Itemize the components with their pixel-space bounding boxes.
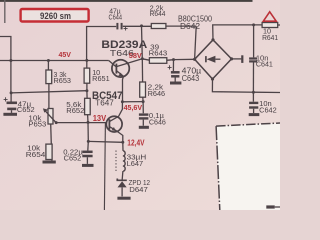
capacitor C652 (0,22u) [82,141,92,164]
svg-text:R646: R646 [148,89,166,98]
top page border [0,0,253,2]
node E junction [85,89,88,92]
wire wiper to BC547 base [56,122,107,124]
node I junction [87,140,90,143]
ground (R654) [43,161,56,164]
capacitor C646 [139,102,149,126]
left page frame line [4,0,6,23]
svg-text:R643: R643 [149,49,168,58]
wire C644 to node F [123,25,152,27]
svg-text:C652: C652 [64,154,81,163]
capacitor C643 [167,60,179,82]
ground (C652 47u) [3,113,17,116]
wire node M to bridge left [174,58,195,60]
node D junction (C652 top) [10,91,13,94]
svg-text:45V: 45V [59,50,72,59]
svg-text:R654: R654 [26,150,46,159]
svg-text:+: + [167,63,172,72]
bridge rectifier D642 [195,40,232,79]
node C junction (R651 top) [85,59,88,62]
svg-text:R652: R652 [66,106,84,115]
node G junction (58V) [141,57,144,60]
svg-text:C641: C641 [256,60,273,69]
capacitor C652 (47u) [7,93,18,113]
warning triangle [263,12,276,21]
wire left entry to node A [0,37,11,61]
ground (D647) [117,197,130,200]
node bridge-top junction [211,38,214,41]
inset white panel [216,123,280,210]
svg-text:T647: T647 [95,99,114,108]
svg-text:C643: C643 [182,74,200,83]
resistor R643 [142,58,173,64]
wire top rail left corner [87,27,117,61]
wire R644 to bridge left [195,26,197,59]
ground (C652 0,22u) [82,164,94,167]
wire node F down to node G [141,26,144,59]
node bridge-right junction [230,57,233,60]
node W junction (wiper) [55,121,58,124]
svg-text:R644: R644 [150,9,166,18]
node J junction (output node) [121,100,124,103]
ground (C646) [139,126,149,129]
svg-text:R651: R651 [92,74,110,83]
capacitor C642 [249,92,258,113]
node H junction (base node) [87,121,90,124]
capacitor C641 [249,25,257,92]
capacitor C644 [117,23,128,33]
zener diode D647 ZPD12 [117,179,127,197]
svg-text:C642: C642 [259,105,277,114]
node M junction (C643 tap) [172,58,175,61]
transistor T646 BD239A [109,59,143,102]
svg-text:+: + [3,95,8,104]
svg-text:D642: D642 [180,22,200,31]
wire bridge right terminal [232,55,243,63]
svg-text:9260 sm: 9260 sm [40,11,71,22]
wire node H down to node I [87,122,89,141]
node A junction [9,59,12,62]
inductor L647 [116,142,125,179]
wire node J to node K [122,101,143,103]
ground (C642) [249,113,260,116]
wire off-page from base node [104,122,105,210]
node bridge-bottom junction [211,77,214,80]
resistor R653 [46,61,52,109]
node F junction [140,24,143,27]
svg-text:C646: C646 [149,117,166,126]
component stub in panel [266,205,280,208]
svg-text:C644: C644 [109,13,123,22]
svg-text:P653: P653 [28,120,46,129]
wire node D to node E [11,91,87,93]
svg-text:13V: 13V [93,114,107,123]
ground (C643) [170,82,181,85]
svg-text:12,4V: 12,4V [127,138,145,147]
svg-text:45,6V: 45,6V [124,103,143,112]
wire bridge bottom to ground rail [212,79,280,93]
wire emitter rail [88,140,123,143]
resistor R641 [262,23,280,28]
svg-text:L647: L647 [127,159,144,168]
node L junction (emitter 12,4V) [121,141,124,144]
wire C652 tap [10,61,12,93]
wire bridge top to R641 rail [213,25,262,40]
resistor R652 [85,91,91,123]
svg-text:+: + [123,24,128,33]
svg-text:58V: 58V [129,51,142,60]
resistor R654 [46,144,52,160]
node bridge-left junction [193,58,196,61]
potentiometer P653 [43,108,56,144]
node B junction (R653 top) [47,59,50,62]
resistor R651 [84,60,90,90]
part number badge 9260 sm [21,9,89,22]
svg-text:D647: D647 [129,185,148,194]
svg-text:R653: R653 [54,76,72,85]
node N junction (C641 top) [252,23,255,26]
wire 45V rail [0,60,109,62]
transistor T647 BC547 [106,102,123,143]
resistor R646 [140,59,146,102]
svg-text:R641: R641 [262,33,278,42]
node O junction (C642 top) [252,91,255,94]
resistor R644 [151,24,196,29]
node K junction [142,100,145,103]
